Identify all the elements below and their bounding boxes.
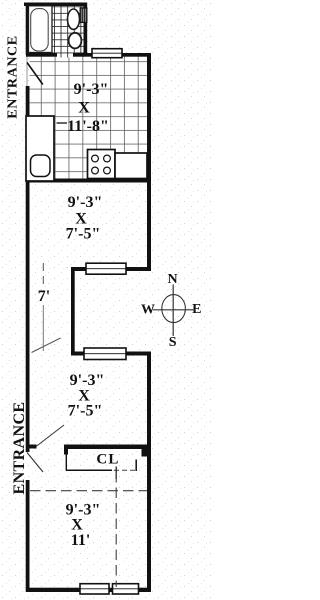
wall: right exterior lower <box>147 352 151 593</box>
svg-text:X: X <box>78 100 90 117</box>
wall: entrance 2 return <box>26 445 37 449</box>
svg-text:7'-5": 7'-5" <box>68 403 103 420</box>
entrance 2 door leaf <box>27 453 43 473</box>
wall: bathroom right <box>84 3 88 57</box>
kitchen label leader line <box>57 122 68 124</box>
wall: bottom exterior <box>26 588 151 592</box>
closet door swing tick <box>115 467 117 480</box>
bathroom tile floor <box>52 6 84 53</box>
svg-text:ENTRANCE: ENTRANCE <box>11 402 28 495</box>
wall: right exterior upper <box>147 53 151 271</box>
entrance 2 leader diagonal <box>36 425 64 447</box>
window: room2 top <box>84 348 126 360</box>
bottom room dimension text <box>66 502 101 550</box>
kitchen tile floor <box>30 57 148 179</box>
kitchen dimension text <box>67 81 109 135</box>
wall: closet left thin <box>65 454 67 471</box>
wall: room2 top (courtyard) <box>71 352 151 356</box>
toilet bowl <box>69 33 82 49</box>
svg-text:9'-3": 9'-3" <box>74 81 109 98</box>
corridor door diagonal <box>32 338 61 353</box>
kitchen counter with sink <box>26 116 54 181</box>
svg-text:CL: CL <box>96 452 119 468</box>
wall: closet left cap <box>64 445 68 455</box>
room1 dimension text <box>66 194 103 243</box>
bathroom doorway tiles <box>57 53 73 58</box>
corridor dimension dashed line upper <box>42 263 44 287</box>
door threshold line: entrance 1 <box>26 55 28 86</box>
closet door dashed track <box>114 469 135 471</box>
svg-text:X: X <box>71 517 83 534</box>
dashed partition vertical <box>115 472 117 587</box>
svg-text:9'-3": 9'-3" <box>70 372 105 389</box>
svg-text:ENTRANCE: ENTRANCE <box>6 35 21 118</box>
wall: bathroom bottom right jamb <box>73 53 84 57</box>
window: bottom left <box>80 584 109 594</box>
svg-text:S: S <box>169 335 177 350</box>
wall: left exterior upper <box>26 3 30 56</box>
window: room1 bottom <box>86 263 126 274</box>
wall: closet top <box>64 445 151 450</box>
wall: bathroom bottom (under tub) <box>26 53 57 57</box>
svg-text:N: N <box>167 272 177 287</box>
svg-text:7'-5": 7'-5" <box>66 226 101 243</box>
wall: room1 bottom (courtyard) <box>71 267 151 271</box>
dashed partition horizontal <box>30 490 147 492</box>
wall: left exterior lower (below entrance 2) <box>26 480 30 592</box>
svg-text:11'-8": 11'-8" <box>67 118 109 135</box>
compass horizontal line <box>153 309 196 311</box>
svg-text:7': 7' <box>38 288 50 305</box>
svg-text:W: W <box>141 303 155 318</box>
wall: kitchen top <box>83 53 151 57</box>
bathroom sink <box>68 9 80 29</box>
corridor dimension line lower <box>42 305 44 351</box>
stove <box>88 150 116 179</box>
compass vertical line <box>172 285 174 337</box>
wall: left exterior mid (below entrance 1) <box>26 86 30 452</box>
wall: closet right stub <box>142 449 148 457</box>
svg-text:11': 11' <box>71 532 91 549</box>
wall: kitchen bottom <box>26 179 151 183</box>
window: kitchen top <box>92 49 122 58</box>
svg-text:9'-3": 9'-3" <box>68 194 103 211</box>
wall: corridor right <box>71 267 75 356</box>
compass circle <box>162 295 186 323</box>
wall: top exterior (bathroom) <box>24 3 87 7</box>
entrance 1 door leaf <box>27 63 43 85</box>
kitchen right counter <box>115 153 147 179</box>
bathtub <box>29 6 53 53</box>
room2 dimension text <box>68 372 105 420</box>
wall: closet bottom thin <box>66 469 112 471</box>
window: bottom right <box>113 584 139 594</box>
closet door jamb tick <box>135 460 137 472</box>
radiator <box>80 8 87 22</box>
